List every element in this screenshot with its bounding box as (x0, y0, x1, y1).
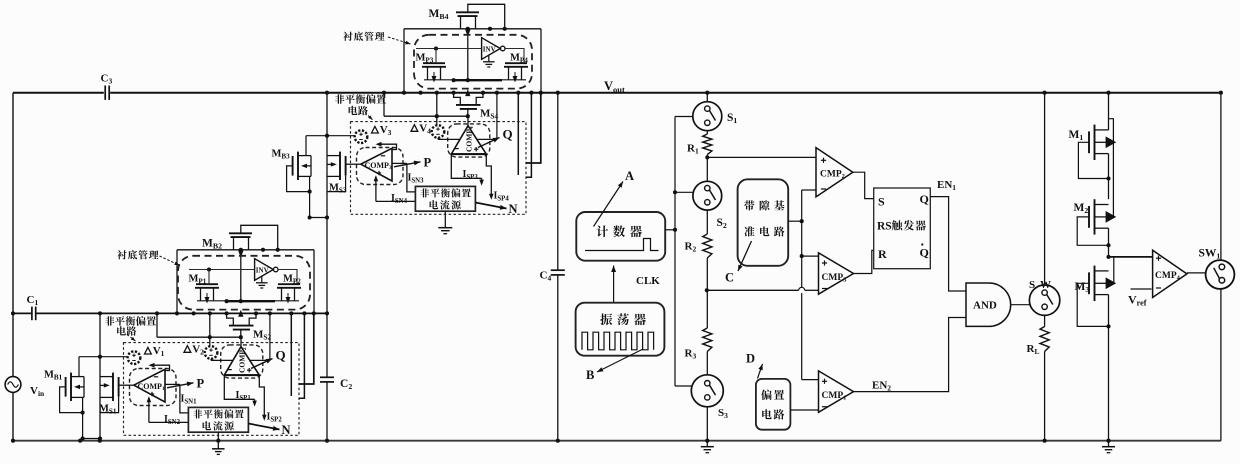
svg-text:N: N (509, 202, 518, 216)
wire INV output (278, 270, 297, 285)
inverter INV (482, 38, 501, 60)
capacitor C4 (551, 269, 565, 271)
AC source Vin (5, 377, 21, 393)
wire CMP2 to S (853, 172, 874, 198)
wire M1 body tie (1109, 119, 1114, 217)
wire Vout top rail (13, 92, 104, 94)
wire cell right verticals (517, 93, 519, 175)
transistor MB4 (456, 11, 479, 13)
node Q (478, 138, 500, 148)
svg-text:D: D (746, 352, 755, 366)
wire CLK (613, 266, 615, 303)
voltage offset dV3 (355, 130, 368, 143)
transistor MP2 (278, 283, 300, 285)
wire gate feed arrow (240, 250, 242, 301)
svg-text:INV: INV (256, 267, 269, 275)
node P (394, 162, 421, 167)
wire CMP4 output (1187, 272, 1206, 274)
callout B (597, 349, 643, 372)
transistor M2 (1094, 199, 1096, 234)
callout D (758, 364, 763, 378)
node N (248, 424, 279, 430)
wire cell main vertical (326, 93, 328, 314)
wire COMP output (392, 162, 407, 164)
block unbalanced bias circuit cell upper (351, 122, 527, 215)
svg-text:S: S (878, 195, 885, 209)
wire current source feed (180, 384, 189, 413)
wire COMP vertical inputs (437, 138, 439, 140)
wire COMP plus input (148, 398, 150, 423)
node Q (251, 359, 273, 369)
transistor MP4 (505, 62, 527, 64)
gate AND (966, 283, 1011, 326)
resistor R2 (706, 210, 708, 234)
wire body arrow to rail (465, 89, 470, 96)
voltage offset dV2 (205, 346, 218, 359)
block counter 计数器 (576, 212, 665, 261)
wire INV input (416, 48, 482, 50)
svg-text:P: P (197, 377, 205, 391)
block unbalanced bias current source 非平衡偏置电流源 (415, 186, 475, 211)
transistor MP1 (196, 283, 218, 285)
wire AND to SW (1011, 304, 1030, 306)
block substrate management 衬底管理 (414, 35, 532, 89)
wire COMP input (346, 163, 361, 165)
switch S1 (706, 93, 708, 102)
svg-text:Q: Q (503, 127, 513, 142)
comparator CMP1 (819, 371, 854, 412)
wire C4 branch (557, 93, 559, 271)
svg-text:Q: Q (920, 246, 929, 260)
voltage offset dV4 (432, 125, 445, 138)
svg-text:AND: AND (973, 300, 997, 312)
capacitor C2 (320, 376, 334, 378)
svg-text:COMP3: COMP3 (365, 161, 392, 171)
wire COMP vertical apex (467, 116, 469, 126)
capacitor C3 (104, 86, 106, 100)
svg-text:S: S (1029, 279, 1035, 291)
ground at S3 (706, 442, 708, 447)
ground at upper current source (444, 211, 446, 228)
ground at INV (261, 276, 263, 283)
svg-text:CMP3: CMP3 (822, 273, 847, 284)
wire COMP input (119, 384, 134, 386)
wire CMP3 to R (854, 250, 874, 273)
wire COMP output (165, 383, 180, 385)
svg-text:Q: Q (276, 348, 286, 363)
block substrate management 衬底管理 (178, 256, 310, 310)
wire gate feed arrow (467, 29, 469, 80)
wire gate tie riser (156, 313, 158, 337)
resistor R3 (703, 328, 712, 352)
wire COMP plus input (375, 177, 377, 202)
svg-text:COMP1: COMP1 (138, 382, 165, 392)
block unbalanced bias current source 非平衡偏置电流源 (188, 407, 248, 432)
block bias 偏置电路 (756, 379, 791, 430)
transistor MS3 (339, 152, 341, 180)
junctions bottom rail (78, 439, 82, 443)
wire ISP3 feed (451, 154, 481, 178)
node P (167, 383, 194, 388)
wire R2R3 node to CMP3 (707, 289, 799, 291)
svg-text:C: C (725, 271, 734, 285)
wire bandgap output (788, 220, 802, 222)
wire R1 node to CMP2 (707, 156, 816, 158)
svg-text:W: W (1040, 279, 1051, 291)
svg-text:P: P (424, 156, 432, 170)
svg-text:RS: RS (877, 221, 892, 233)
transistor MP3 (423, 62, 445, 64)
wire reference bus (801, 190, 803, 288)
ground at M3 (1108, 442, 1110, 447)
wire dV input (79, 356, 128, 358)
transistor MB3 (297, 152, 299, 180)
svg-text:CLK: CLK (636, 275, 660, 287)
node N (475, 203, 506, 209)
wire ISP4 feed (259, 375, 264, 419)
wire C2 branch (326, 313, 328, 377)
callout C (738, 241, 752, 271)
wire SW branch top (1044, 93, 1046, 286)
comparator COMP1 (130, 369, 177, 406)
wire mid rail stage1 (13, 312, 31, 314)
wire cell frame lower (177, 249, 314, 251)
transistor M1 (1094, 125, 1096, 160)
wire M3 source to ground rail (1108, 295, 1110, 441)
comparator CMP4 (1153, 250, 1187, 297)
wire left input column (12, 93, 14, 377)
wire dV input (306, 135, 355, 137)
transistor MB2 (229, 232, 252, 234)
svg-text:R: R (878, 247, 887, 261)
transistor M3 (1094, 266, 1096, 301)
wire bias to CMP1 (790, 409, 818, 411)
svg-text:CMP1: CMP1 (822, 391, 847, 402)
wire cell internal bus (424, 79, 452, 81)
wire cell main vertical (99, 313, 101, 440)
wire ISP3 feed (224, 375, 254, 399)
block unbalanced bias circuit cell lower (124, 343, 300, 436)
wire M1 gate loop (1078, 142, 1108, 178)
wire EN2 (854, 318, 967, 392)
wire COMP vertical inputs (210, 359, 212, 361)
wire COMP minus feedback (380, 144, 397, 149)
comparator COMP3 (357, 148, 404, 185)
block oscillator 振荡器 (576, 303, 665, 356)
wire M3 gate loop (1077, 283, 1108, 326)
wire INV input (189, 269, 255, 271)
comparator COMP4 (448, 124, 490, 157)
wire gate tie riser (383, 93, 385, 117)
switch SW1 (1206, 260, 1235, 289)
svg-text:B: B (586, 368, 594, 382)
wire M1 source (1108, 154, 1110, 200)
voltage offset dV1 (128, 351, 141, 364)
ground at INV (488, 55, 490, 62)
svg-text:A: A (625, 169, 634, 183)
wire M2 gate loop (1077, 217, 1108, 245)
wire cell right verticals (290, 313, 292, 396)
wire EN1 (930, 197, 966, 291)
svg-text:COMP2: COMP2 (238, 347, 249, 373)
transistor MS1 (112, 373, 114, 401)
wire switch control bus (674, 117, 676, 387)
wire COMP minus feedback (153, 365, 170, 370)
svg-text:N: N (282, 423, 291, 437)
wire M3 body tie (1113, 257, 1115, 283)
wire right edge top (1220, 93, 1222, 261)
block bandgap 带隙基准电路 (738, 179, 789, 265)
wire M2 source (1108, 228, 1110, 257)
transistor MS4 (454, 93, 461, 105)
comparator CMP3 (819, 253, 854, 294)
ground at lower current source (217, 432, 219, 441)
inverter INV (255, 259, 274, 281)
svg-text:INV: INV (483, 46, 496, 54)
svg-text:Q: Q (920, 192, 929, 206)
switch S3 (691, 375, 723, 407)
waveform oscillator pulses (582, 332, 654, 350)
wire gate tie (157, 336, 241, 338)
wire CMP4 plus input (1109, 256, 1153, 258)
callout A (594, 182, 624, 227)
resistor R1 (706, 131, 708, 134)
switch S2 (693, 181, 722, 210)
switch SW (1029, 285, 1059, 315)
wire INV output (505, 49, 524, 64)
svg-text:CMP2: CMP2 (820, 170, 845, 181)
comparator COMP2 (221, 345, 263, 378)
wire COMP vertical apex (240, 337, 242, 347)
wire right edge bottom (1220, 289, 1222, 441)
wire bottom rail (13, 440, 1221, 442)
resistor RL (1044, 315, 1046, 326)
block RS flip-flop RS触发器 (874, 188, 931, 269)
comparator CMP2 (816, 148, 853, 197)
svg-text:COMP4: COMP4 (465, 126, 476, 152)
wire cell frame upper (404, 28, 541, 30)
transistor MB1 (70, 373, 72, 401)
wire gate tie (384, 115, 468, 117)
wire Vref stub (1131, 288, 1152, 290)
wire current source feed (407, 163, 416, 192)
capacitor C1 (31, 307, 33, 321)
wire body arrow to rail (238, 310, 243, 317)
wire ISP4 feed (486, 154, 491, 198)
wire cell internal bus (197, 300, 225, 302)
wire M1 drain (1108, 93, 1110, 130)
transistor MS2 (227, 313, 234, 325)
